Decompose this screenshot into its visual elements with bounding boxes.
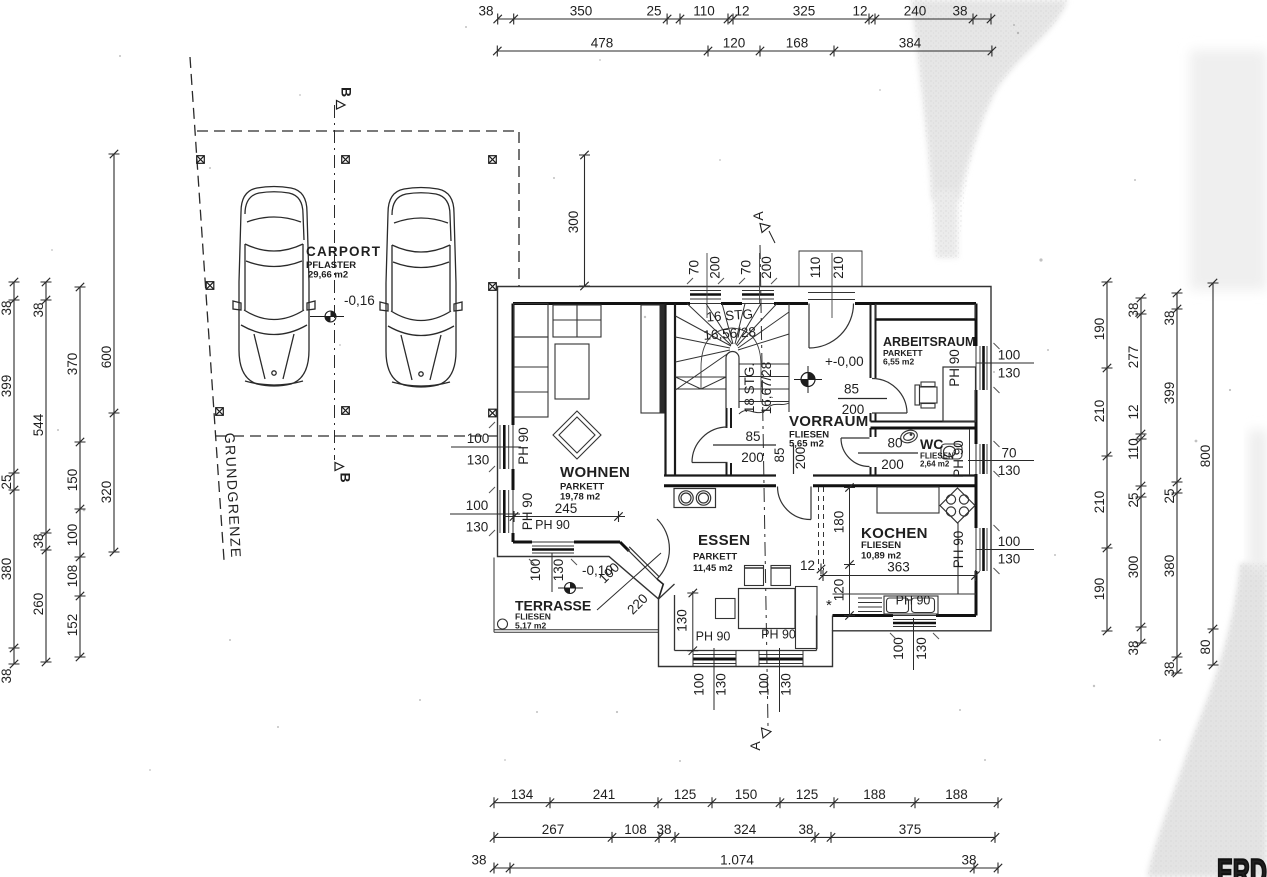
- svg-text:38: 38: [656, 822, 671, 837]
- svg-text:85: 85: [772, 447, 787, 462]
- svg-text:1.074: 1.074: [720, 853, 754, 868]
- svg-text:38: 38: [961, 853, 976, 868]
- door Arbeitsraum: [872, 379, 907, 414]
- section line B dash-dot: [334, 105, 336, 460]
- svg-text:325: 325: [793, 4, 816, 19]
- interior wall Vorraum/Essen + WC/Kochen: [664, 474, 976, 476]
- door stair base: [692, 427, 728, 463]
- svg-text:320: 320: [99, 481, 114, 504]
- dim 245 Wohnen: [504, 501, 625, 522]
- chimney with two flues: [674, 489, 716, 508]
- carport posts: [197, 156, 205, 164]
- terrace door arc: [657, 519, 669, 579]
- svg-text:190: 190: [1092, 578, 1107, 601]
- svg-text:110: 110: [1126, 438, 1141, 460]
- svg-text:38: 38: [1126, 640, 1141, 655]
- diagonal wall inner face heavy stubs: [620, 542, 629, 551]
- chair Arbeitsraum: [915, 382, 937, 408]
- svg-text:FLIESEN: FLIESEN: [861, 540, 901, 551]
- section marker A top: [750, 211, 775, 243]
- dim 180/120 kitchen: [826, 483, 855, 619]
- svg-text:70: 70: [1001, 446, 1016, 461]
- staircase winder treads left fan: [676, 304, 734, 391]
- stack 100/130 east Kochen: [976, 534, 1034, 567]
- scan artifact gray plume top right: [911, 0, 1068, 200]
- window east WC (70/130): [976, 444, 987, 474]
- section line A dash-dot: [760, 245, 768, 726]
- svg-text:245: 245: [555, 501, 578, 516]
- svg-text:PH 90: PH 90: [951, 531, 966, 569]
- svg-text:70: 70: [739, 260, 754, 275]
- svg-text:38: 38: [0, 300, 14, 315]
- car 1: [233, 187, 315, 387]
- svg-text:-0,16: -0,16: [344, 293, 375, 308]
- svg-text:PH 90: PH 90: [951, 440, 966, 478]
- south wall Wohnen inner face heavy line: [513, 541, 620, 544]
- dimension chain right 3: [1162, 289, 1183, 677]
- svg-text:240: 240: [904, 4, 927, 19]
- cupboard Wohnen east: [641, 305, 665, 413]
- svg-text:130: 130: [998, 552, 1021, 567]
- svg-text:PH 90: PH 90: [696, 630, 731, 644]
- svg-text:38: 38: [1162, 310, 1177, 325]
- rotated square table: [553, 411, 601, 459]
- svg-text:210: 210: [1092, 400, 1107, 423]
- svg-text:70: 70: [687, 260, 702, 275]
- svg-text:12: 12: [734, 4, 749, 19]
- svg-text:152: 152: [65, 614, 80, 637]
- svg-text:370: 370: [65, 353, 80, 376]
- svg-text:100: 100: [998, 348, 1021, 363]
- svg-text:38: 38: [31, 533, 46, 548]
- svg-text:B: B: [339, 87, 355, 97]
- svg-text:399: 399: [1162, 382, 1177, 405]
- svg-text:WC: WC: [920, 436, 943, 452]
- svg-text:260: 260: [31, 593, 46, 616]
- staircase newel: [726, 352, 739, 409]
- svg-text:100: 100: [528, 559, 543, 582]
- svg-text:600: 600: [99, 346, 114, 369]
- svg-text:ESSEN: ESSEN: [698, 532, 750, 549]
- svg-text:241: 241: [593, 787, 616, 802]
- bay window 1 (100/130): [693, 655, 736, 664]
- dimension chain top row 1: [478, 4, 995, 25]
- svg-text:WOHNEN: WOHNEN: [560, 464, 630, 481]
- svg-text:PARKETT: PARKETT: [693, 552, 737, 563]
- dim 12: [800, 558, 825, 575]
- svg-text:125: 125: [674, 787, 697, 802]
- staircase break line: [739, 403, 789, 414]
- svg-text:38: 38: [0, 668, 14, 683]
- svg-text:200: 200: [793, 447, 808, 470]
- svg-text:210: 210: [1092, 491, 1107, 514]
- window west 1 (100/130): [500, 425, 513, 469]
- svg-text:100: 100: [891, 637, 906, 660]
- bay west wall: [659, 584, 675, 651]
- svg-text:150: 150: [65, 469, 80, 492]
- svg-text:130: 130: [714, 673, 729, 696]
- dimension chain right 2: [1126, 294, 1147, 656]
- svg-text:38: 38: [798, 822, 813, 837]
- dimension chain bottom row 3: [471, 853, 1002, 874]
- carport level symbol: [310, 311, 344, 322]
- stack 100/130 west window 1: [451, 431, 521, 468]
- window east Kochen (100/130): [976, 528, 987, 571]
- section marker B bottom: [335, 463, 354, 483]
- interior wall Arbeitsraum/WC: [871, 421, 977, 423]
- north wall inner face heavy line: [513, 302, 976, 305]
- west wall inner face heavy line: [512, 304, 515, 543]
- svg-text:80: 80: [887, 436, 902, 451]
- svg-text:38: 38: [478, 4, 493, 19]
- entrance door: [809, 304, 854, 349]
- svg-text:277: 277: [1126, 346, 1141, 369]
- window east Arbeitsraum (100/130): [976, 346, 987, 390]
- svg-text:2,64 m2: 2,64 m2: [920, 460, 950, 469]
- svg-text:PH 90: PH 90: [520, 493, 535, 531]
- svg-text:188: 188: [945, 787, 968, 802]
- svg-text:100: 100: [998, 534, 1021, 549]
- door WC: [841, 438, 870, 467]
- dim 100/130 terrace door vertical labels: [528, 553, 566, 592]
- svg-text:380: 380: [0, 558, 14, 581]
- interior wall Wohnen/stair: [666, 304, 676, 476]
- svg-text:38: 38: [471, 853, 486, 868]
- interior wall stair/Vorraum (w2): [727, 405, 732, 476]
- dimension chain top row 2: [493, 36, 996, 57]
- svg-text:267: 267: [542, 822, 565, 837]
- entrance dimension box: [799, 251, 862, 287]
- bay east wall: [817, 616, 833, 651]
- stack 100/130 east Arbeitsraum: [976, 348, 1034, 381]
- svg-text:25: 25: [646, 4, 661, 19]
- staircase boundary line: [788, 304, 790, 413]
- svg-text:12: 12: [852, 4, 867, 19]
- survey symbol Terrasse: [558, 583, 583, 594]
- dimension chain right 1: [1092, 278, 1113, 635]
- svg-text:B: B: [338, 472, 354, 482]
- sofa corner element: [514, 304, 549, 338]
- kitchen counter east edge: [833, 523, 977, 594]
- svg-text:120: 120: [832, 579, 847, 602]
- svg-text:PH 90: PH 90: [947, 349, 962, 387]
- svg-text:85: 85: [745, 429, 760, 444]
- ERDGESCHOSS title cut off: [1217, 852, 1267, 877]
- svg-text:A: A: [747, 741, 763, 751]
- bay window jamb lines: [693, 651, 803, 667]
- svg-text:120: 120: [723, 36, 746, 51]
- dim 80/200 WC door: [858, 436, 918, 473]
- property boundary GRUNDGRENZE dashed line: [190, 57, 224, 560]
- svg-text:*: *: [826, 597, 832, 614]
- svg-text:PH 90: PH 90: [516, 427, 531, 465]
- svg-text:110: 110: [693, 4, 715, 19]
- svg-text:25: 25: [0, 474, 14, 489]
- scan artifact right edge band: [1190, 50, 1267, 290]
- svg-text:12: 12: [800, 558, 815, 573]
- svg-text:ARBEITSRAUM: ARBEITSRAUM: [883, 335, 975, 349]
- svg-text:18 STG.: 18 STG.: [742, 363, 757, 413]
- svg-text:380: 380: [1162, 555, 1177, 578]
- dining chairs top: [745, 566, 791, 586]
- svg-text:5,17 m2: 5,17 m2: [515, 621, 546, 631]
- svg-text:200: 200: [708, 256, 723, 279]
- svg-text:CARPORT: CARPORT: [306, 244, 381, 259]
- section marker A bottom: [747, 728, 771, 751]
- svg-text:300: 300: [566, 211, 581, 234]
- svg-text:130: 130: [551, 559, 566, 582]
- kitchen counter north: [877, 487, 939, 513]
- svg-text:38: 38: [952, 4, 967, 19]
- dither texture over gray areas: [911, 0, 1068, 258]
- svg-text:150: 150: [735, 787, 758, 802]
- sideboard Essen east: [796, 587, 818, 649]
- svg-text:350: 350: [570, 4, 593, 19]
- svg-text:100: 100: [757, 673, 772, 696]
- staircase straight treads lower flight: [739, 364, 789, 402]
- door Vorraum to Essen: [778, 487, 812, 520]
- desk Arbeitsraum: [943, 367, 976, 422]
- svg-text:130: 130: [467, 453, 490, 468]
- entrance threshold lines: [808, 293, 855, 300]
- svg-text:6,55 m2: 6,55 m2: [883, 357, 914, 367]
- bay south wall inner line: [675, 650, 817, 652]
- window west 2 (100/130): [500, 490, 513, 533]
- svg-text:11,45 m2: 11,45 m2: [693, 563, 733, 574]
- dining chair left: [716, 599, 736, 619]
- dim 85/200 stair door: [713, 429, 776, 465]
- dim 363 kitchen: [819, 560, 980, 582]
- sofa left seats: [514, 337, 548, 417]
- closet Arbeitsraum: [876, 305, 976, 320]
- svg-text:134: 134: [511, 787, 534, 802]
- svg-text:100: 100: [467, 431, 490, 446]
- window/door leader lines north: [707, 253, 832, 318]
- dining table: [739, 589, 796, 629]
- svg-text:PH 90: PH 90: [896, 594, 931, 608]
- svg-text:200: 200: [759, 256, 774, 279]
- svg-text:200: 200: [842, 402, 865, 417]
- svg-text:210: 210: [831, 256, 846, 279]
- svg-text:PH 90: PH 90: [535, 518, 570, 532]
- house outer wall outline: [498, 287, 992, 667]
- svg-text:300: 300: [1126, 556, 1141, 579]
- svg-text:100: 100: [692, 673, 707, 696]
- staircase winder treads right fan: [735, 304, 789, 351]
- bay window 2 (100/130): [759, 655, 803, 664]
- kitchen upper cabinet dashed lines: [819, 487, 824, 570]
- svg-text:16,67/28: 16,67/28: [759, 362, 774, 415]
- svg-text:12: 12: [1126, 404, 1141, 419]
- svg-text:130: 130: [779, 673, 794, 696]
- section marker B top: [337, 87, 355, 109]
- dimension chain left B: [31, 278, 52, 666]
- dim 85/200 Essen door rotated: [772, 443, 808, 474]
- svg-text:38: 38: [1126, 302, 1141, 317]
- car 2: [380, 188, 462, 388]
- coffee table: [555, 344, 589, 399]
- svg-text:384: 384: [899, 36, 922, 51]
- svg-text:29,66 m2: 29,66 m2: [308, 270, 348, 281]
- svg-text:130: 130: [998, 463, 1021, 478]
- dimension 300 vertical: [566, 151, 590, 290]
- dimension chain bottom row 1: [490, 787, 1002, 808]
- svg-text:363: 363: [887, 560, 910, 575]
- svg-text:38: 38: [1162, 661, 1177, 676]
- svg-text:130: 130: [914, 637, 929, 660]
- scan artifact bottom right blob: [1147, 563, 1267, 877]
- stack 100/130 south Kochen window rotated: [891, 618, 929, 670]
- svg-text:+-0,00: +-0,00: [825, 354, 864, 369]
- terrace outline: [494, 558, 659, 633]
- dimension chain bottom row 2: [490, 822, 999, 843]
- svg-text:130: 130: [675, 609, 690, 632]
- svg-text:544: 544: [31, 413, 46, 436]
- svg-text:190: 190: [1092, 318, 1107, 341]
- survey symbol Vorraum: [794, 366, 822, 393]
- dimension chain left A: [0, 278, 20, 684]
- svg-text:38: 38: [31, 302, 46, 317]
- svg-text:80: 80: [1198, 639, 1213, 654]
- dimension chain right 4: [1198, 279, 1219, 669]
- svg-text:108: 108: [65, 565, 80, 588]
- window north 2 (70/200): [742, 291, 774, 304]
- svg-text:180: 180: [832, 511, 847, 534]
- svg-text:A: A: [750, 211, 766, 221]
- window south Wohnen (100/130): [532, 542, 574, 553]
- svg-text:ERDG: ERDG: [1217, 852, 1267, 877]
- stack 70/130 east WC: [968, 446, 1034, 479]
- staircase walk line: [701, 328, 761, 401]
- dim 130 bay: [675, 589, 699, 655]
- svg-text:125: 125: [796, 787, 819, 802]
- svg-text:110: 110: [808, 257, 823, 279]
- svg-text:478: 478: [591, 36, 614, 51]
- svg-text:130: 130: [466, 520, 489, 535]
- svg-text:168: 168: [786, 36, 809, 51]
- dim 85/200 Arbeitsraum door: [838, 382, 887, 418]
- svg-text:399: 399: [0, 375, 14, 398]
- svg-text:PH 90: PH 90: [761, 628, 796, 642]
- svg-text:188: 188: [863, 787, 886, 802]
- svg-text:800: 800: [1198, 445, 1213, 468]
- interior wall Vorraum/Arbeitsraum+WC: [871, 304, 876, 476]
- scan speckles: [51, 24, 1231, 771]
- WC toilet: [941, 444, 962, 459]
- svg-text:375: 375: [899, 822, 922, 837]
- svg-text:100: 100: [65, 524, 80, 547]
- svg-text:108: 108: [624, 822, 647, 837]
- stack 100/130 bay window 1 rotated: [692, 648, 729, 710]
- staircase left flight treads and start arrow: [676, 377, 727, 389]
- dimension chain left C: [65, 283, 86, 661]
- window sill hatch ticks: [489, 278, 1000, 639]
- svg-text:100: 100: [466, 498, 489, 513]
- dimension chain left D: [99, 150, 120, 556]
- WC window niche line: [969, 429, 971, 475]
- sofa top seats: [553, 305, 601, 337]
- stack 100/130 bay window 2 rotated: [757, 648, 794, 712]
- east wall inner face heavy line: [975, 304, 978, 616]
- svg-text:200: 200: [881, 457, 904, 472]
- south wall Kochen inner face heavy line: [833, 614, 977, 617]
- window north 1 (70/200): [690, 291, 721, 304]
- svg-text:25: 25: [1162, 488, 1177, 503]
- carport dashed outline: [197, 131, 519, 436]
- stove diamond with burners: [940, 488, 975, 523]
- WC sink: [899, 428, 919, 445]
- svg-text:25: 25: [1126, 492, 1141, 507]
- svg-text:200: 200: [741, 450, 764, 465]
- dim 100 220 diagonal door: [596, 553, 661, 617]
- stack 100/130 west window 2: [450, 498, 520, 535]
- kitchen sink: [858, 596, 938, 614]
- terrace door leaf on diagonal wall: [627, 547, 659, 579]
- window south Kochen (100/130): [893, 616, 936, 627]
- terrace drain circle: [498, 619, 508, 629]
- svg-text:85: 85: [844, 382, 859, 397]
- svg-text:324: 324: [734, 822, 757, 837]
- svg-text:130: 130: [998, 366, 1021, 381]
